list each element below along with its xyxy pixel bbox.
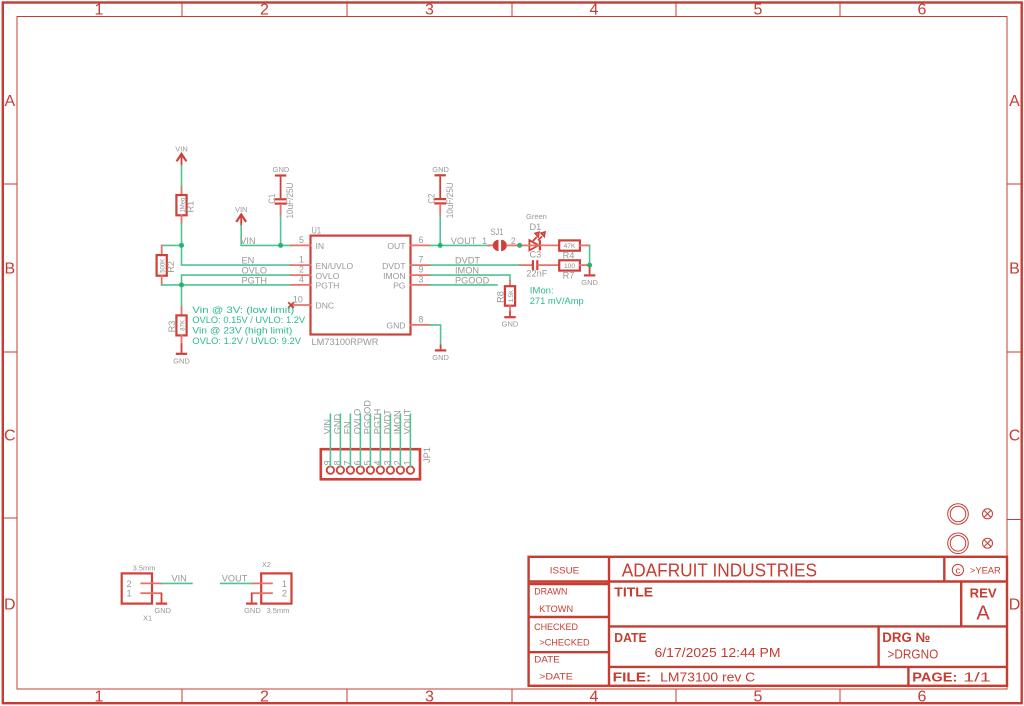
U1 pin 1 EN/UVLO (291, 255, 354, 271)
svg-text:>YEAR: >YEAR (970, 566, 1001, 577)
svg-text:ISSUE: ISSUE (550, 566, 579, 577)
svg-text:6: 6 (918, 2, 927, 19)
svg-text:2: 2 (260, 689, 269, 706)
capacitor C2 10uF/25U (426, 182, 454, 218)
connector X1 (122, 564, 162, 623)
svg-text:3.5mm: 3.5mm (267, 606, 290, 615)
svg-text:OUT: OUT (387, 241, 406, 251)
U1 pin 2 OVLO (291, 265, 340, 281)
svg-text:10: 10 (293, 294, 303, 304)
fiducial mark F2 (983, 538, 993, 548)
wire OVLO net (182, 275, 291, 285)
svg-text:PGTH: PGTH (242, 275, 268, 285)
svg-text:4: 4 (299, 274, 304, 284)
svg-text:DVDT: DVDT (382, 261, 406, 271)
svg-text:1: 1 (127, 589, 132, 599)
svg-text:VIN: VIN (240, 236, 255, 246)
svg-text:LM73100RPWR: LM73100RPWR (312, 337, 379, 347)
svg-text:3: 3 (419, 274, 424, 284)
svg-text:JP1: JP1 (422, 447, 432, 463)
svg-text:87K: 87K (180, 319, 187, 331)
wire R2 bottom to node (162, 284, 182, 286)
pin header JP1 (321, 447, 432, 479)
title block (529, 557, 1007, 686)
mounting hole H1 (948, 504, 969, 525)
svg-text:U1: U1 (312, 225, 322, 235)
U1 pin 5 IN (291, 235, 324, 251)
svg-text:1/1: 1/1 (963, 669, 991, 684)
svg-text:GND: GND (581, 278, 598, 287)
wire X1 VIN net (162, 582, 193, 584)
svg-text:ADAFRUIT INDUSTRIES: ADAFRUIT INDUSTRIES (622, 559, 817, 580)
wire IMON net (430, 275, 510, 281)
ground at X2 (244, 593, 289, 615)
wire C2 to VOUT net (439, 215, 441, 245)
resistor R3 87K (167, 307, 187, 343)
svg-text:1: 1 (299, 255, 304, 265)
svg-text:6: 6 (419, 235, 424, 245)
svg-text:IMON: IMON (383, 271, 405, 281)
svg-text:CHECKED: CHECKED (534, 622, 578, 633)
U1 pin 6 OUT (387, 235, 430, 251)
svg-text:4: 4 (590, 2, 599, 19)
svg-text:D: D (1009, 597, 1021, 614)
svg-text:10uF/25U: 10uF/25U (285, 183, 295, 219)
svg-text:6: 6 (353, 460, 363, 465)
svg-text:D1: D1 (530, 222, 542, 232)
svg-text:3.5mm: 3.5mm (133, 564, 156, 573)
svg-text:GND: GND (173, 356, 190, 365)
svg-text:7: 7 (343, 460, 353, 465)
svg-text:R7: R7 (563, 270, 575, 280)
svg-text:4: 4 (373, 460, 383, 465)
ground below R3 (173, 344, 190, 366)
supply symbol VIN (second) (235, 205, 248, 225)
svg-text:9: 9 (419, 265, 424, 275)
svg-text:C: C (4, 428, 16, 445)
svg-text:>DRGNO: >DRGNO (888, 647, 939, 661)
U1 pin 3 PG (393, 274, 430, 290)
resistor R1 1Meg (176, 187, 195, 223)
svg-text:Green: Green (526, 212, 547, 221)
mounting hole H2 (948, 533, 969, 554)
svg-text:LM73100 rev C: LM73100 rev C (660, 669, 755, 684)
junction EN node (179, 243, 184, 248)
svg-text:100: 100 (564, 263, 575, 270)
svg-text:47K: 47K (564, 243, 576, 250)
junction OVLO/PGTH node (179, 282, 184, 287)
svg-text:9: 9 (323, 460, 333, 465)
svg-text:271 mV/Amp: 271 mV/Amp (530, 296, 584, 307)
solder jumper SJ1 (482, 227, 519, 251)
junction C2/VOUT (438, 243, 443, 248)
JP1 stub wires (330, 414, 410, 466)
JP1 pad circles (327, 466, 414, 473)
svg-text:GND: GND (273, 165, 290, 174)
U1 pin 4 PGTH (291, 274, 339, 290)
svg-text:OVLO: 0.15V / UVLO: 1.2V: OVLO: 0.15V / UVLO: 1.2V (192, 315, 305, 326)
svg-text:DATE: DATE (534, 655, 560, 666)
svg-text:GND: GND (154, 606, 171, 615)
wire node to R2 top (162, 244, 182, 246)
svg-text:2: 2 (127, 579, 132, 589)
svg-text:5: 5 (754, 689, 763, 706)
svg-text:GND: GND (432, 353, 449, 362)
wire C1 to VIN net (280, 216, 282, 246)
svg-text:3: 3 (425, 2, 434, 19)
ground above C2 (432, 165, 449, 198)
resistor R2 500K (157, 245, 176, 285)
ground above C1 (273, 165, 290, 198)
wire DVDT net (430, 264, 520, 266)
wire node to R3 (181, 285, 183, 307)
U1 pin 9 IMON (383, 265, 430, 281)
fiducial mark F1 (983, 509, 993, 519)
svg-text:PGTH: PGTH (316, 281, 340, 291)
svg-text:5: 5 (754, 2, 763, 19)
ground at pin 8 (432, 345, 449, 362)
resistor R8 1.5K (495, 281, 515, 312)
svg-text:IN: IN (316, 241, 325, 251)
svg-text:GND: GND (432, 165, 449, 174)
wire VOUT net (430, 244, 488, 246)
svg-text:2: 2 (299, 265, 304, 275)
connector X2 (252, 560, 292, 604)
svg-text:R8: R8 (495, 291, 505, 303)
supply symbol VIN (top left) (175, 145, 188, 166)
junction R4/R7/GND (587, 263, 592, 268)
svg-text:B: B (1009, 261, 1020, 278)
svg-text:EN: EN (242, 256, 255, 266)
svg-text:2: 2 (282, 589, 287, 599)
svg-text:FILE:: FILE: (613, 669, 652, 684)
resistor R4 47K (559, 240, 589, 260)
wire R4 to R7/GND junction (589, 245, 591, 265)
svg-text:1: 1 (403, 460, 413, 465)
svg-text:PAGE:: PAGE: (912, 669, 957, 684)
svg-text:C: C (1009, 428, 1021, 445)
U1 pin 7 DVDT (382, 255, 430, 271)
svg-text:SJ1: SJ1 (491, 227, 504, 237)
svg-text:A: A (1009, 93, 1020, 110)
svg-text:6/17/2025 12:44 PM: 6/17/2025 12:44 PM (655, 645, 781, 660)
svg-text:DRAWN: DRAWN (534, 587, 567, 598)
wire VIN2 down and to IC pin 5 (241, 226, 291, 246)
LED D1 Green (520, 212, 560, 250)
svg-text:DRG №: DRG № (882, 630, 930, 645)
svg-text:3: 3 (425, 689, 434, 706)
svg-text:22nF: 22nF (526, 269, 547, 279)
svg-text:VOUT: VOUT (451, 236, 477, 246)
svg-text:TITLE: TITLE (614, 585, 653, 600)
note IMon scale (530, 285, 584, 307)
wire VIN arrow to R1 (181, 166, 183, 188)
svg-text:6: 6 (918, 689, 927, 706)
svg-text:C2: C2 (426, 194, 436, 204)
svg-text:A: A (976, 603, 990, 625)
svg-text:PGOOD: PGOOD (455, 275, 490, 285)
svg-text:2: 2 (511, 236, 516, 246)
svg-text:R1: R1 (186, 201, 196, 213)
svg-text:3: 3 (383, 460, 393, 465)
svg-text:X2: X2 (262, 560, 271, 569)
svg-text:>CHECKED: >CHECKED (539, 638, 590, 649)
svg-text:B: B (4, 261, 15, 278)
wire pin8 to ground (430, 325, 441, 345)
svg-text:KTOWN: KTOWN (539, 604, 573, 615)
svg-text:OVLO: OVLO (242, 266, 268, 276)
svg-text:c: c (956, 565, 961, 576)
svg-text:EN/UVLO: EN/UVLO (316, 261, 354, 271)
note UVLO/OVLO settings (192, 305, 305, 347)
capacitor C3 22nF (520, 250, 559, 279)
wire R1 to EN node (181, 224, 183, 246)
svg-text:A: A (4, 93, 15, 110)
svg-text:1: 1 (95, 689, 104, 706)
resistor R7 100 (559, 260, 589, 280)
svg-text:VIN: VIN (172, 574, 187, 584)
svg-text:OVLO: OVLO (316, 271, 340, 281)
svg-text:DNC: DNC (316, 301, 335, 311)
svg-text:IMON: IMON (455, 266, 479, 276)
svg-text:PG: PG (393, 281, 406, 291)
svg-text:Vin @ 23V (high limit): Vin @ 23V (high limit) (192, 326, 292, 337)
svg-text:1: 1 (482, 236, 487, 246)
svg-text:VOUT: VOUT (222, 574, 248, 584)
svg-text:GND: GND (386, 321, 405, 331)
ground below R8 (502, 312, 519, 329)
svg-text:OVLO: 1.2V / UVLO: 9.2V: OVLO: 1.2V / UVLO: 9.2V (192, 336, 301, 347)
wire EN net (182, 245, 291, 265)
svg-text:D: D (4, 597, 16, 614)
wire X2 VOUT net (221, 582, 252, 584)
svg-text:GND: GND (502, 320, 519, 329)
junction SJ1/D1 (517, 243, 522, 248)
junction C1/VIN (278, 243, 283, 248)
svg-text:7: 7 (419, 255, 424, 265)
svg-text:1: 1 (95, 2, 104, 19)
svg-text:1: 1 (282, 579, 287, 589)
svg-text:R2: R2 (166, 261, 176, 273)
svg-text:5: 5 (363, 460, 373, 465)
ground at R4/R7 (581, 265, 598, 287)
svg-text:Vin @ 3V: (low limit): Vin @ 3V: (low limit) (192, 305, 294, 316)
svg-text:1.5K: 1.5K (508, 289, 515, 302)
svg-text:5: 5 (299, 235, 304, 245)
svg-text:4: 4 (590, 689, 599, 706)
capacitor C1 10uF/25U (267, 183, 295, 219)
svg-text:>DATE: >DATE (539, 671, 573, 682)
svg-text:8: 8 (333, 460, 343, 465)
svg-text:R3: R3 (167, 321, 177, 333)
svg-text:2: 2 (393, 460, 403, 465)
U1 pin 8 GND (386, 314, 430, 330)
svg-text:REV: REV (970, 586, 997, 601)
svg-text:DVDT: DVDT (455, 256, 480, 266)
JP1 pin numbers 9..1 (323, 460, 413, 465)
JP1 net labels (322, 400, 412, 435)
wire PGOOD net (430, 284, 497, 286)
IC U1 box (311, 225, 411, 346)
svg-text:10uF/25U: 10uF/25U (445, 182, 455, 218)
svg-text:IMon:: IMon: (530, 285, 554, 296)
ground at X1 (154, 593, 171, 615)
svg-text:C1: C1 (267, 194, 277, 204)
svg-text:2: 2 (260, 2, 269, 19)
svg-text:R4: R4 (563, 251, 575, 261)
wire PGTH net (182, 284, 291, 286)
svg-text:X1: X1 (143, 614, 152, 623)
U1 pin 10 DNC with no-connect cross (288, 294, 334, 310)
svg-text:GND: GND (244, 606, 261, 615)
svg-text:C3: C3 (530, 250, 542, 260)
svg-text:8: 8 (419, 314, 424, 324)
svg-text:DATE: DATE (614, 630, 647, 645)
